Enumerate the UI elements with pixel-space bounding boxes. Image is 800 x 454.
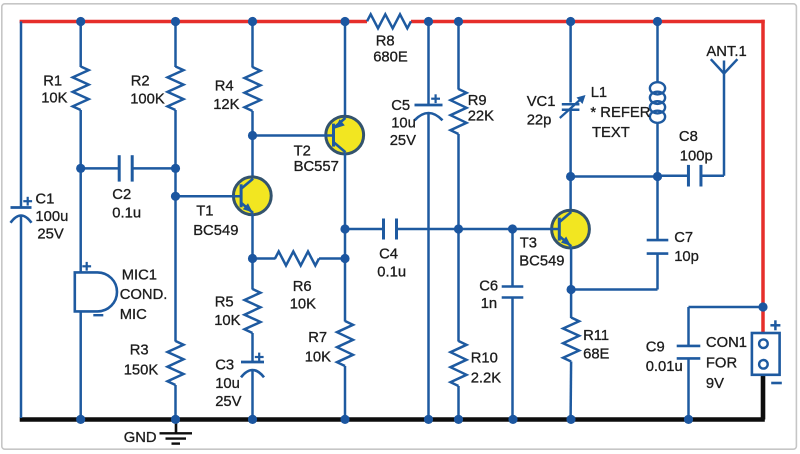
svg-text:0.1u: 0.1u <box>377 264 406 280</box>
svg-text:C4: C4 <box>379 246 398 262</box>
svg-text:R10: R10 <box>471 350 498 366</box>
svg-text:100u: 100u <box>35 209 68 225</box>
svg-text:10K: 10K <box>290 297 316 313</box>
svg-text:10K: 10K <box>214 313 240 329</box>
svg-text:1n: 1n <box>481 296 497 312</box>
svg-text:ANT.1: ANT.1 <box>706 44 746 60</box>
svg-text:R2: R2 <box>131 74 150 90</box>
svg-text:C8: C8 <box>679 129 698 145</box>
svg-text:MIC1: MIC1 <box>122 267 157 283</box>
svg-text:VC1: VC1 <box>527 94 556 110</box>
svg-text:9V: 9V <box>706 376 724 392</box>
svg-text:68E: 68E <box>583 347 609 363</box>
svg-text:CON1: CON1 <box>706 335 747 351</box>
svg-text:10u: 10u <box>215 376 240 392</box>
svg-text:FOR: FOR <box>706 356 737 372</box>
svg-text:10p: 10p <box>674 249 699 265</box>
svg-text:R7: R7 <box>308 330 327 346</box>
svg-text:0.01u: 0.01u <box>646 359 683 375</box>
svg-text:T2: T2 <box>294 144 311 160</box>
svg-text:100K: 100K <box>130 91 165 107</box>
svg-text:2.2K: 2.2K <box>471 370 502 386</box>
svg-text:C5: C5 <box>391 98 410 114</box>
svg-text:R6: R6 <box>293 279 312 295</box>
svg-text:BC549: BC549 <box>193 223 238 239</box>
svg-text:C9: C9 <box>646 339 665 355</box>
svg-text:100p: 100p <box>680 148 713 164</box>
svg-text:T1: T1 <box>196 203 213 219</box>
svg-text:R11: R11 <box>583 328 609 344</box>
svg-text:R4: R4 <box>215 79 234 95</box>
svg-text:BC557: BC557 <box>294 159 339 175</box>
svg-text:10u: 10u <box>391 115 416 131</box>
svg-text:R9: R9 <box>468 93 487 109</box>
svg-text:22K: 22K <box>468 109 494 125</box>
svg-text:C6: C6 <box>479 278 498 294</box>
svg-text:680E: 680E <box>373 50 408 66</box>
svg-text:R8: R8 <box>376 33 395 49</box>
svg-text:R1: R1 <box>43 74 62 90</box>
svg-text:C1: C1 <box>35 192 54 208</box>
svg-text:COND.: COND. <box>120 287 168 303</box>
svg-text:L1: L1 <box>591 85 607 101</box>
svg-text:C7: C7 <box>674 230 693 246</box>
svg-text:GND: GND <box>124 430 157 446</box>
svg-text:C3: C3 <box>215 357 234 373</box>
svg-text:25V: 25V <box>215 394 241 410</box>
svg-text:C2: C2 <box>112 187 131 203</box>
svg-text:25V: 25V <box>37 226 63 242</box>
svg-text:22p: 22p <box>527 113 552 129</box>
svg-text:TEXT: TEXT <box>592 125 630 141</box>
svg-text:10K: 10K <box>305 350 331 366</box>
svg-text:12K: 12K <box>213 97 239 113</box>
svg-text:10K: 10K <box>41 91 67 107</box>
svg-text:MIC: MIC <box>120 307 147 323</box>
svg-text:0.1u: 0.1u <box>112 205 141 221</box>
svg-text:R3: R3 <box>130 343 149 359</box>
svg-text:T3: T3 <box>520 235 537 251</box>
svg-text:BC549: BC549 <box>519 253 564 269</box>
svg-text:25V: 25V <box>390 133 416 149</box>
svg-text:* REFER: * REFER <box>590 105 650 121</box>
svg-text:R5: R5 <box>215 294 234 310</box>
svg-text:150K: 150K <box>124 363 159 379</box>
